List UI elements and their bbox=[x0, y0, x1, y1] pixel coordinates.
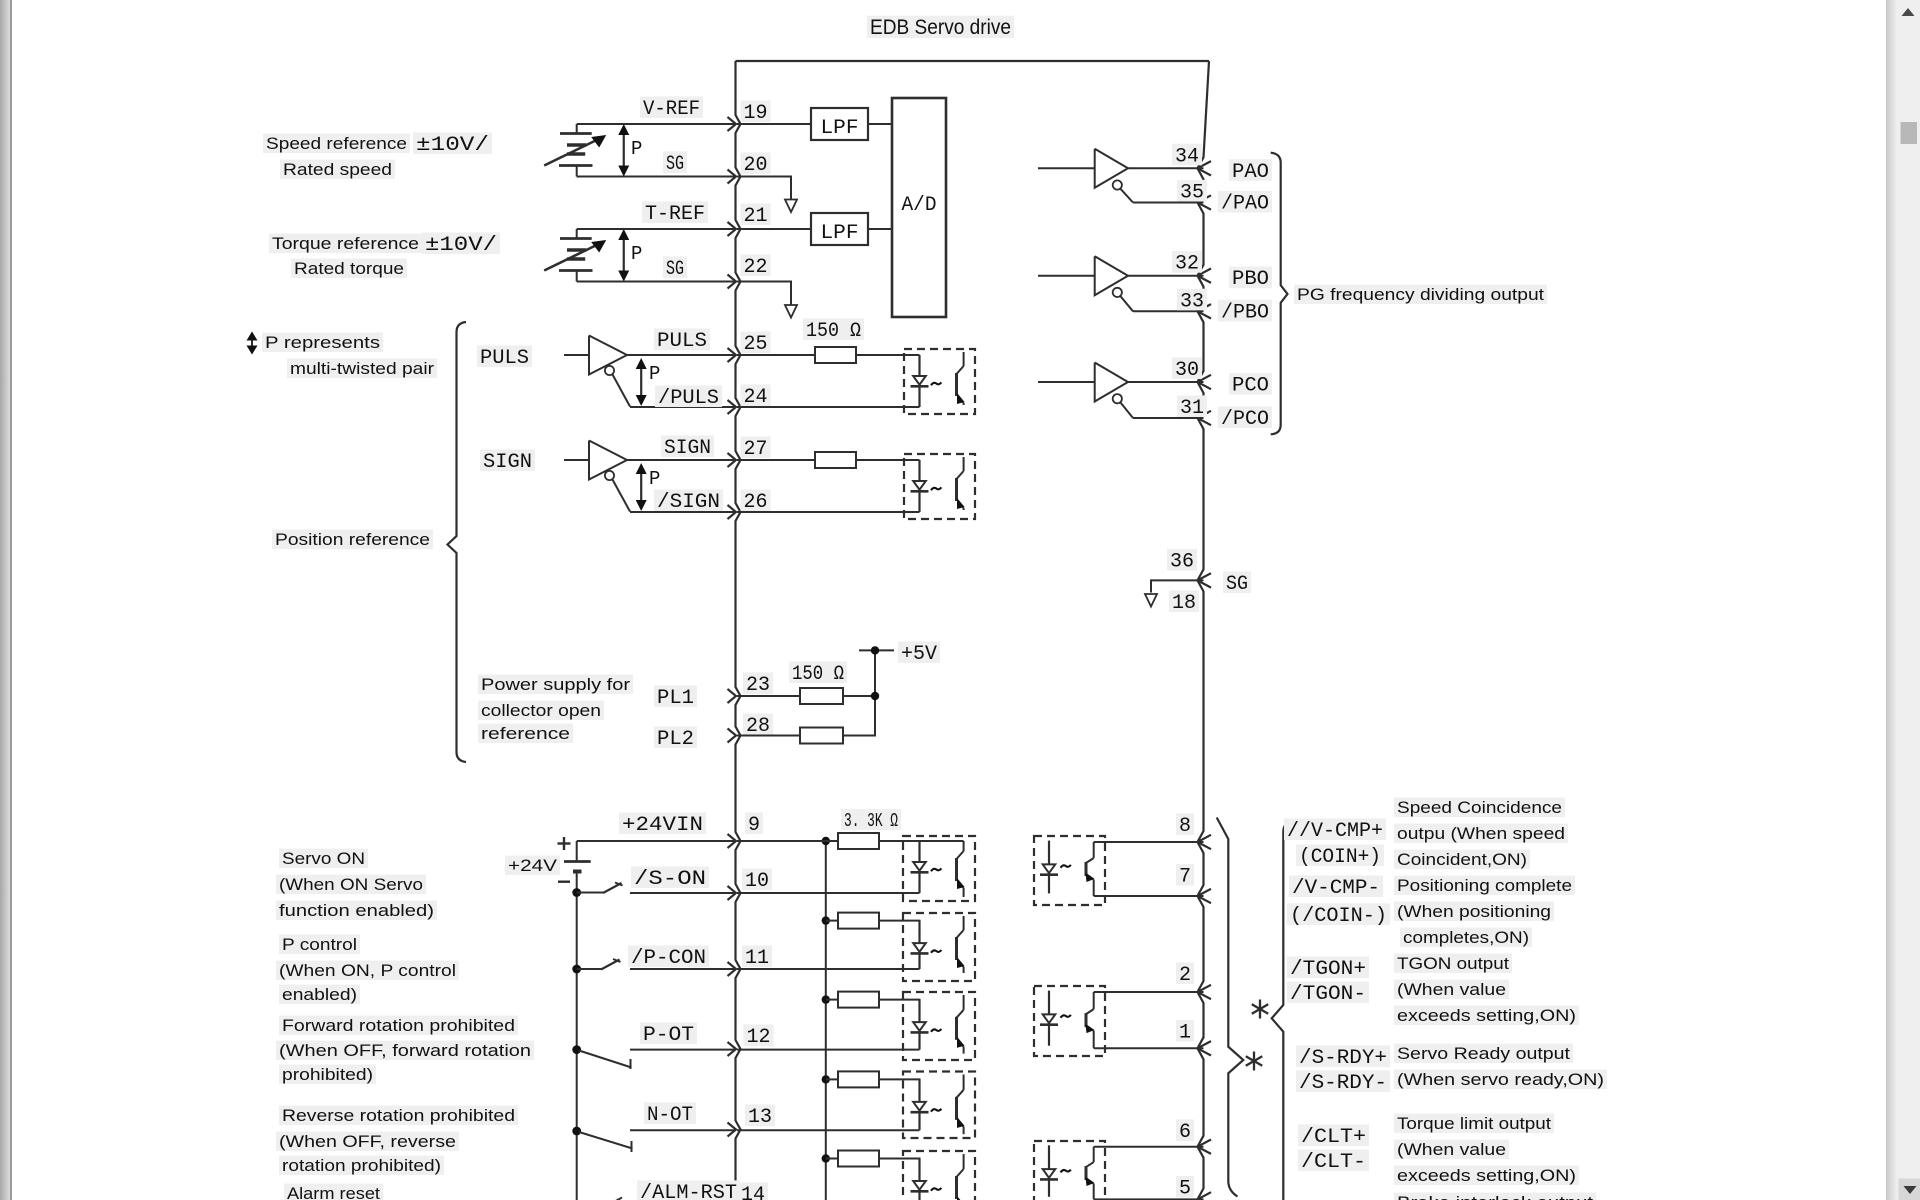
svg-text:exceeds setting,ON): exceeds setting,ON) bbox=[1397, 1006, 1576, 1025]
svg-text:(When ON Servo: (When ON Servo bbox=[279, 875, 423, 894]
asterisk note 2 bbox=[1253, 1052, 1255, 1071]
torque reference source V2 bbox=[576, 229, 578, 239]
label +24V bbox=[505, 856, 560, 875]
svg-text:N-OT: N-OT bbox=[647, 1104, 693, 1127]
svg-text:24: 24 bbox=[744, 386, 768, 409]
title EDB Servo drive bbox=[867, 16, 1014, 38]
line driver U-PCO bbox=[1038, 381, 1095, 383]
note P represents multi-twisted pair bbox=[262, 333, 383, 352]
pin 22 bbox=[728, 275, 737, 289]
label torque reference bbox=[269, 234, 422, 253]
wire PAO bbox=[1128, 167, 1204, 169]
svg-text:Positioning complete: Positioning complete bbox=[1397, 876, 1572, 895]
label SIGN bbox=[480, 449, 535, 471]
svg-text:(When OFF, forward rotation: (When OFF, forward rotation bbox=[279, 1041, 531, 1060]
svg-text:Rated speed: Rated speed bbox=[283, 160, 392, 179]
scrollbar track bbox=[1886, 0, 1920, 1200]
pin 23 bbox=[728, 689, 737, 703]
svg-text:/ALM-RST: /ALM-RST bbox=[640, 1182, 737, 1200]
switch S1 /S-ON bbox=[577, 892, 603, 894]
svg-text:rotation prohibited): rotation prohibited) bbox=[282, 1156, 441, 1175]
pin 8 bbox=[1198, 835, 1212, 849]
pin 19 bbox=[728, 117, 737, 131]
svg-text:TGON output: TGON output bbox=[1397, 954, 1509, 973]
svg-text:14: 14 bbox=[741, 1184, 765, 1200]
junction P-OT bbox=[572, 1045, 581, 1054]
wire pin23 to R3 bbox=[737, 695, 800, 697]
svg-text:/S-RDY+: /S-RDY+ bbox=[1299, 1047, 1387, 1070]
wire bubble to /PBO bbox=[1120, 296, 1133, 311]
twisted pair marker P4 bbox=[640, 470, 642, 504]
switch S5 /ALM-RST partial bbox=[603, 1198, 622, 1200]
label +5V bbox=[898, 641, 940, 663]
output signal names bbox=[1284, 818, 1386, 840]
wire LPF2 to A/D bbox=[868, 228, 892, 230]
svg-text:SG: SG bbox=[1226, 573, 1248, 596]
label PULS bbox=[477, 345, 532, 367]
svg-text:/S-RDY-: /S-RDY- bbox=[1299, 1072, 1387, 1095]
24V negative rail bbox=[576, 893, 578, 1200]
net label PBO bbox=[1229, 267, 1272, 289]
svg-text:7: 7 bbox=[1179, 866, 1191, 889]
svg-text:/CLT-: /CLT- bbox=[1301, 1151, 1366, 1174]
net label P-OT bbox=[640, 1022, 697, 1044]
net label /PBO bbox=[1218, 300, 1272, 322]
twisted pair marker P1 bbox=[623, 131, 625, 170]
resistor R2 150ohm bbox=[815, 452, 856, 468]
junction bus row 5 bbox=[822, 1154, 830, 1162]
wire pin24 return bbox=[737, 406, 920, 408]
wire T-REF bbox=[577, 228, 736, 230]
3.3K bus bbox=[825, 841, 827, 1200]
svg-text:SG: SG bbox=[666, 153, 684, 176]
svg-text:/P-CON: /P-CON bbox=[631, 947, 706, 970]
switch S4 N-OT bbox=[579, 1132, 633, 1149]
svg-text:Power supply for: Power supply for bbox=[481, 675, 630, 694]
svg-text:/TGON+: /TGON+ bbox=[1290, 958, 1366, 981]
svg-text:150 Ω: 150 Ω bbox=[792, 663, 844, 686]
node +5V rail bbox=[859, 649, 894, 651]
svg-text:+5V: +5V bbox=[901, 643, 937, 666]
svg-text:Alarm reset: Alarm reset bbox=[287, 1184, 380, 1200]
wire pin 10 return bbox=[737, 892, 920, 894]
junction S-ON bbox=[572, 888, 581, 897]
svg-text:Brake interlock output: Brake interlock output bbox=[1397, 1193, 1593, 1200]
wire pin 13 return bbox=[737, 1129, 920, 1131]
svg-text:PULS: PULS bbox=[657, 330, 707, 353]
net label PAO bbox=[1229, 159, 1272, 181]
net label T-REF bbox=[642, 201, 708, 223]
wire PCO bbox=[1128, 381, 1204, 383]
scrollbar up arrow bbox=[1902, 8, 1915, 16]
resistor R3 150ohm bbox=[800, 688, 843, 704]
pin 9 bbox=[728, 834, 737, 848]
svg-text:/SIGN: /SIGN bbox=[657, 491, 720, 514]
net label /ALM-RST bbox=[637, 1180, 740, 1200]
net label /SIGN bbox=[654, 489, 723, 511]
battery B1 24V bbox=[564, 860, 591, 863]
wire /SIGN bbox=[630, 511, 736, 513]
pin 6 bbox=[1198, 1140, 1212, 1154]
svg-text:Speed Coincidence: Speed Coincidence bbox=[1397, 798, 1562, 817]
wire pin 12 return bbox=[737, 1049, 920, 1051]
junction bus row 3 bbox=[822, 995, 830, 1003]
svg-text:(COIN+): (COIN+) bbox=[1299, 846, 1381, 869]
svg-text:33: 33 bbox=[1180, 290, 1204, 313]
pin 27 bbox=[728, 453, 737, 467]
net label +24VIN bbox=[619, 812, 706, 834]
svg-text:150 Ω: 150 Ω bbox=[806, 320, 861, 343]
wire /PCO bbox=[1133, 417, 1204, 419]
wire pin9 row 1 bbox=[737, 840, 838, 842]
svg-text:34: 34 bbox=[1175, 145, 1199, 168]
pin 2 bbox=[1198, 985, 1212, 999]
wire pin 1 bbox=[1094, 1047, 1204, 1049]
svg-text:PULS: PULS bbox=[480, 347, 529, 370]
svg-text:PCO: PCO bbox=[1232, 375, 1269, 398]
svg-text:22: 22 bbox=[744, 256, 768, 279]
pin 1 bbox=[1198, 1041, 1212, 1055]
svg-text:Forward rotation prohibited: Forward rotation prohibited bbox=[282, 1016, 515, 1035]
svg-text:Servo Ready output: Servo Ready output bbox=[1397, 1044, 1570, 1063]
svg-text:V-REF: V-REF bbox=[643, 98, 700, 121]
svg-text:T-REF: T-REF bbox=[645, 203, 705, 226]
svg-text:P-OT: P-OT bbox=[643, 1024, 694, 1047]
label PG frequency dividing output bbox=[1294, 285, 1547, 304]
net label SIGN bbox=[661, 435, 714, 457]
net label PCO bbox=[1229, 373, 1272, 395]
svg-text:26: 26 bbox=[744, 491, 768, 514]
svg-text:Servo ON: Servo ON bbox=[282, 849, 365, 868]
svg-text:LPF: LPF bbox=[821, 222, 859, 245]
wire R6 to opto U7 bbox=[879, 921, 920, 923]
wire R4 up to +5V node bbox=[843, 650, 875, 735]
net label N-OT bbox=[644, 1102, 696, 1124]
wire R5 to opto U6 bbox=[879, 840, 964, 842]
net label /PCO bbox=[1218, 406, 1272, 428]
svg-text:36: 36 bbox=[1170, 551, 1194, 574]
svg-text:(When value: (When value bbox=[1397, 980, 1506, 999]
wire LPF1 to A/D bbox=[868, 123, 892, 125]
net label /PAO bbox=[1218, 191, 1272, 213]
speed reference source V1 bbox=[576, 124, 578, 134]
optocoupler U10 output bbox=[1034, 836, 1105, 905]
pin 30 bbox=[1198, 375, 1212, 389]
svg-text:SIGN: SIGN bbox=[664, 437, 711, 460]
wire P-OT bbox=[630, 1049, 736, 1051]
pin 35 bbox=[1198, 195, 1212, 209]
optocoupler U8 P-OT bbox=[903, 992, 975, 1060]
servo drive enclosure box bbox=[736, 60, 1210, 62]
wire bus to R8 bbox=[826, 1078, 838, 1080]
optocoupler U6 /S-ON bbox=[903, 836, 975, 901]
signal ground arrow bbox=[1145, 594, 1157, 607]
svg-text:PBO: PBO bbox=[1232, 268, 1269, 291]
svg-text:collector open: collector open bbox=[481, 701, 601, 720]
svg-text:P control: P control bbox=[282, 935, 357, 954]
wire /PBO bbox=[1133, 310, 1204, 312]
svg-text:20: 20 bbox=[744, 154, 768, 177]
net label /PULS bbox=[655, 385, 722, 407]
svg-text:LPF: LPF bbox=[821, 117, 859, 140]
svg-text:outpu (When speed: outpu (When speed bbox=[1397, 824, 1565, 843]
PG group brace bbox=[1271, 153, 1288, 435]
resistor R5 3.3Kohm bbox=[838, 833, 879, 849]
line driver U2 PULS bbox=[564, 354, 589, 356]
wire SG output bbox=[1151, 580, 1204, 592]
svg-text:11: 11 bbox=[745, 947, 769, 970]
label 150 ohm PL bbox=[789, 661, 847, 683]
pin 28 bbox=[728, 729, 737, 743]
twisted pair marker P2 bbox=[623, 236, 625, 275]
svg-text:multi-twisted pair: multi-twisted pair bbox=[290, 359, 434, 378]
svg-text:completes,ON): completes,ON) bbox=[1403, 928, 1529, 947]
low pass filter LPF2 bbox=[811, 213, 868, 245]
net label SG output bbox=[1223, 571, 1251, 593]
svg-text:PL1: PL1 bbox=[657, 687, 694, 710]
svg-text:PL2: PL2 bbox=[657, 728, 694, 751]
resistor R6 3.3Kohm bbox=[838, 913, 879, 929]
junction bus row 4 bbox=[822, 1075, 830, 1083]
pin 12 bbox=[728, 1042, 737, 1056]
svg-text:P: P bbox=[649, 363, 660, 385]
svg-text:exceeds setting,ON): exceeds setting,ON) bbox=[1397, 1166, 1576, 1185]
optocoupler U3 PULS bbox=[904, 349, 975, 414]
wire PULS bbox=[627, 354, 736, 356]
wire /PULS bbox=[630, 406, 736, 408]
svg-text:30: 30 bbox=[1175, 359, 1199, 382]
plus sign bbox=[558, 842, 571, 844]
svg-text:Torque reference: Torque reference bbox=[272, 234, 419, 253]
svg-text:±10V/: ±10V/ bbox=[416, 134, 489, 157]
svg-text:P: P bbox=[649, 468, 660, 490]
svg-text:/TGON-: /TGON- bbox=[1290, 983, 1366, 1006]
svg-text:8: 8 bbox=[1179, 815, 1191, 838]
svg-text:EDB Servo drive: EDB Servo drive bbox=[870, 16, 1011, 39]
svg-text:enabled): enabled) bbox=[282, 985, 357, 1004]
svg-text:+24VIN: +24VIN bbox=[622, 814, 703, 837]
label 150 ohm upper bbox=[803, 318, 864, 340]
line driver U-PAO bbox=[1038, 167, 1095, 169]
pin 11 bbox=[728, 962, 737, 976]
wire pin 8 bbox=[1094, 841, 1204, 843]
pin 14 bbox=[738, 1182, 768, 1200]
label speed reference bbox=[263, 134, 410, 153]
wire R7 to opto U8 bbox=[879, 1000, 920, 1002]
pin 32 bbox=[1198, 269, 1212, 283]
net label /P-CON bbox=[628, 945, 709, 967]
wire R3 to +5V node bbox=[843, 695, 875, 697]
svg-text:9: 9 bbox=[748, 814, 760, 837]
wire bubble to /PULS bbox=[613, 375, 631, 407]
wire V-REF bbox=[577, 123, 736, 125]
svg-text:1: 1 bbox=[1179, 1022, 1191, 1045]
pin 31 bbox=[1198, 411, 1212, 425]
pin 7 bbox=[1198, 889, 1212, 903]
svg-text:10: 10 bbox=[745, 870, 769, 893]
svg-text:reference: reference bbox=[481, 724, 570, 743]
svg-text:(When ON, P control: (When ON, P control bbox=[279, 961, 456, 980]
svg-text:P: P bbox=[631, 243, 642, 265]
svg-text:function enabled): function enabled) bbox=[279, 901, 434, 920]
net label SG upper bbox=[663, 151, 687, 173]
pin 10 bbox=[728, 886, 737, 900]
note twisted-pair symbol bbox=[251, 337, 253, 349]
wire /S-ON bbox=[630, 892, 736, 894]
svg-text:12: 12 bbox=[747, 1026, 771, 1049]
wire pin25 to R1 bbox=[737, 354, 815, 356]
wire pin21 to LPF2 bbox=[737, 228, 811, 230]
optocoupler U9 N-OT bbox=[903, 1072, 975, 1139]
wire pin26 return bbox=[737, 511, 920, 513]
resistor R7 3.3Kohm bbox=[838, 992, 879, 1008]
asterisk note 1 bbox=[1259, 1000, 1261, 1019]
svg-text:Coincident,ON): Coincident,ON) bbox=[1397, 850, 1527, 869]
svg-text:21: 21 bbox=[744, 205, 768, 228]
svg-text:SG: SG bbox=[666, 258, 684, 281]
output group inner bracket bbox=[1217, 818, 1244, 1197]
junction bus row 1 bbox=[822, 837, 830, 845]
svg-text:13: 13 bbox=[748, 1106, 772, 1129]
pin 34 bbox=[1198, 161, 1212, 175]
svg-text:Torque limit output: Torque limit output bbox=[1397, 1114, 1551, 1133]
net label PL1 bbox=[654, 685, 697, 707]
wire SIGN bbox=[627, 459, 736, 461]
optocoupler U5 SIGN bbox=[904, 454, 975, 519]
resistor R9 3.3Kohm bbox=[838, 1151, 879, 1167]
svg-text://V-CMP+: //V-CMP+ bbox=[1287, 820, 1383, 843]
svg-text:25: 25 bbox=[744, 333, 768, 356]
resistor R8 3.3Kohm bbox=[838, 1071, 879, 1087]
svg-text:SIGN: SIGN bbox=[483, 451, 532, 474]
junction N-OT bbox=[572, 1127, 581, 1136]
pin 20 bbox=[728, 170, 737, 184]
wire +24VIN bbox=[577, 840, 736, 842]
wire R9 to opto U10 bbox=[879, 1159, 920, 1161]
wire pin20 to analog ground bbox=[737, 177, 791, 200]
svg-text:prohibited): prohibited) bbox=[282, 1065, 373, 1084]
wire /PAO bbox=[1133, 202, 1204, 204]
switch S3 P-OT bbox=[579, 1051, 632, 1068]
switch S2 /P-CON bbox=[577, 968, 601, 970]
svg-text:31: 31 bbox=[1180, 397, 1204, 420]
pin 25 bbox=[728, 348, 737, 362]
wire pin27 to R2 bbox=[737, 459, 815, 461]
pin 33 bbox=[1198, 304, 1212, 318]
minus sign bbox=[558, 881, 570, 883]
wire PBO bbox=[1128, 275, 1204, 277]
optocoupler U10 /ALM-RST bbox=[903, 1151, 975, 1200]
svg-text:/PCO: /PCO bbox=[1221, 408, 1269, 431]
label 3.3K ohm bbox=[841, 809, 901, 830]
svg-text:P: P bbox=[631, 138, 642, 160]
svg-text:/CLT+: /CLT+ bbox=[1301, 1126, 1366, 1149]
svg-text:Reverse rotation prohibited: Reverse rotation prohibited bbox=[282, 1106, 515, 1125]
svg-text:35: 35 bbox=[1180, 182, 1204, 205]
svg-text:±10V/: ±10V/ bbox=[425, 234, 497, 257]
window left border bbox=[0, 0, 11, 1200]
svg-text:2: 2 bbox=[1179, 964, 1191, 987]
wire pin 5 bbox=[1094, 1198, 1204, 1200]
optocoupler U7 /P-CON bbox=[903, 913, 975, 981]
wire SG upper bbox=[577, 176, 736, 178]
svg-text:P represents: P represents bbox=[265, 333, 380, 352]
svg-text:Speed reference: Speed reference bbox=[266, 134, 407, 153]
svg-text:27: 27 bbox=[744, 438, 768, 461]
analog ground arrow 2 bbox=[785, 305, 797, 318]
wire bus to R9 bbox=[826, 1158, 838, 1160]
svg-text:23: 23 bbox=[746, 674, 770, 697]
svg-text:+24V: +24V bbox=[508, 856, 558, 875]
svg-text:/PULS: /PULS bbox=[658, 387, 719, 410]
pin 24 bbox=[728, 400, 737, 414]
output function descriptions bbox=[1394, 798, 1565, 817]
net label PULS bbox=[654, 328, 710, 350]
wire pin 11 return bbox=[737, 968, 920, 970]
scrollbar down button bbox=[1899, 1179, 1920, 1200]
wire /P-CON bbox=[630, 968, 736, 970]
wire bubble to /PAO bbox=[1120, 189, 1133, 203]
low pass filter LPF1 bbox=[811, 108, 868, 140]
svg-text:(When OFF, reverse: (When OFF, reverse bbox=[279, 1132, 456, 1151]
wire pin 2 bbox=[1094, 991, 1204, 993]
pin 21 bbox=[728, 222, 737, 236]
wire R1 to optocoupler bbox=[856, 354, 920, 356]
svg-text:PAO: PAO bbox=[1232, 161, 1269, 184]
optocoupler U11 output bbox=[1034, 986, 1105, 1056]
line driver U4 SIGN bbox=[564, 459, 589, 461]
wire R8 to opto U9 bbox=[879, 1079, 920, 1081]
svg-text:/PAO: /PAO bbox=[1221, 193, 1269, 216]
wire pin 6 bbox=[1094, 1146, 1204, 1148]
svg-text:A/D: A/D bbox=[902, 194, 937, 217]
wire pin19 to LPF1 bbox=[737, 123, 811, 125]
label power supply for collector open reference bbox=[478, 675, 633, 694]
svg-text:(When value: (When value bbox=[1397, 1140, 1506, 1159]
pin 26 bbox=[728, 505, 737, 519]
wire bus to R7 bbox=[826, 999, 838, 1001]
svg-text:Rated torque: Rated torque bbox=[294, 259, 404, 278]
wire pin28 to R4 bbox=[737, 735, 800, 737]
wire R2 to optocoupler bbox=[856, 459, 920, 461]
A/D converter U1 bbox=[892, 98, 946, 317]
svg-text:5: 5 bbox=[1179, 1178, 1191, 1200]
input function descriptions bbox=[279, 849, 368, 868]
wire bus to R6 bbox=[826, 920, 838, 922]
wire pin 7 bbox=[1094, 895, 1204, 897]
output group outer bracket bbox=[1272, 822, 1292, 1200]
net label V-REF bbox=[640, 96, 703, 118]
wire bubble to /PCO bbox=[1120, 402, 1133, 418]
svg-text:(When positioning: (When positioning bbox=[1397, 902, 1551, 921]
svg-text:PG frequency dividing output: PG frequency dividing output bbox=[1297, 285, 1544, 304]
pin 13 bbox=[728, 1123, 737, 1137]
svg-text:19: 19 bbox=[744, 102, 768, 125]
pin 5 bbox=[1198, 1192, 1212, 1200]
svg-text:3. 3K Ω: 3. 3K Ω bbox=[844, 810, 898, 832]
svg-text:/V-CMP-: /V-CMP- bbox=[1292, 877, 1380, 900]
junction bus row 2 bbox=[822, 916, 830, 924]
junction P-CON bbox=[572, 965, 581, 974]
wire pin22 to analog ground bbox=[737, 282, 791, 306]
net label /S-ON bbox=[631, 866, 709, 888]
svg-text:6: 6 bbox=[1179, 1121, 1191, 1144]
position reference group brace bbox=[448, 322, 467, 762]
svg-text:/S-ON: /S-ON bbox=[634, 868, 706, 891]
wire N-OT bbox=[630, 1129, 736, 1131]
wire bubble to /SIGN bbox=[613, 480, 631, 512]
scrollbar thumb bbox=[1901, 122, 1918, 144]
